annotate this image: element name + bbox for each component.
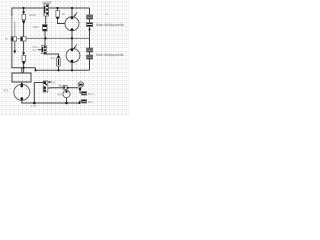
- wire capA to capB: [23, 25, 25, 53]
- switch S2 (on x23.6 mid rail): [21, 37, 26, 41]
- connector K2 (right bottom): [82, 100, 87, 104]
- component K_bot (vertical striped, x43-47): [43, 81, 50, 92]
- svg-text:Main lähtöpuolelta: Main lähtöpuolelta: [96, 53, 124, 57]
- wire y88 comp row: [47, 87, 63, 89]
- small comp D2 on wire y88: [63, 86, 67, 90]
- wire circleB drop: [66, 88, 68, 91]
- wire R1 to lamp1: [58, 21, 66, 24]
- wire lamp1 top feed: [71, 8, 73, 17]
- wire circle3 bottom to y103: [22, 100, 80, 104]
- wire bottom rail y70.3: [36, 69, 90, 71]
- wire capB to rail: [23, 65, 25, 73]
- svg-text:1,5V: 1,5V: [31, 104, 37, 108]
- switch S1 (in left border on mid rail): [11, 37, 16, 41]
- lamp L2 arrow: [74, 45, 77, 49]
- mosfet Q2: [42, 46, 47, 54]
- wire right chain between C3 C4: [89, 52, 91, 55]
- resistor R2 (source resistor): [57, 56, 61, 66]
- wire y82.5: [34, 82, 43, 84]
- wire top rail left (gate side): [12, 7, 44, 9]
- wire lamp1 to lamp2: [71, 31, 73, 50]
- wire circleA to K1: [80, 87, 82, 93]
- capacitor C2 (right chain): [87, 23, 93, 27]
- capacitor C5 (on x45.5 between Q1 and rail): [43, 25, 47, 32]
- svg-text:4n7: 4n7: [33, 48, 38, 52]
- input probe arrow (x14.7): [13, 51, 16, 54]
- wire left border vertical (lower): [11, 41, 13, 68]
- wire right chain between C1 C2: [89, 19, 91, 23]
- wire bottom-left rail y67.5: [11, 67, 35, 69]
- svg-text:9V1: 9V1: [4, 89, 9, 93]
- svg-text:14m +: 14m +: [88, 92, 96, 96]
- wire resistor R2 to bottom rail: [58, 66, 60, 70]
- connector K1 (right bottom): [82, 92, 87, 96]
- wire K2 stub: [80, 101, 82, 103]
- wire x34 vertical: [33, 83, 35, 104]
- lamp L2 circle: [66, 45, 80, 63]
- capacitor C4 (right chain): [87, 55, 93, 59]
- wire gray mid rail: [17, 38, 21, 40]
- svg-text:9V1: 9V1: [58, 93, 63, 97]
- wire top rail right: [49, 7, 90, 9]
- wire circle3 top lead: [21, 82, 23, 85]
- mini lamp B: [63, 90, 70, 97]
- capacitor C3 (right chain): [87, 48, 93, 52]
- mini lamp A: [78, 82, 83, 90]
- wire resistor R1 drop: [57, 8, 59, 11]
- stray mark: [106, 14, 107, 15]
- svg-text:14m -: 14m -: [88, 100, 95, 104]
- grid dots: [0, 0, 130, 116]
- svg-text:1n: 1n: [5, 37, 9, 41]
- svg-text:10uF: 10uF: [29, 13, 36, 17]
- lamp L1 arrow: [74, 12, 77, 16]
- wire jog at x35.5: [35, 68, 37, 71]
- wire mosfet1 drain down chain: [45, 16, 47, 25]
- wire right chain C4 to bottom rail: [89, 59, 91, 70]
- svg-text:9W: 9W: [58, 83, 62, 87]
- svg-text:UG3T: UG3T: [43, 1, 52, 5]
- svg-text:Main lähtöpuolelta: Main lähtöpuolelta: [96, 23, 124, 27]
- svg-text:5W: 5W: [51, 81, 56, 85]
- wire right chain vertical top: [89, 8, 91, 15]
- svg-text:4n7: 4n7: [51, 56, 56, 60]
- wire battery box stub: [21, 68, 23, 73]
- wire mosfet2 gate stub: [38, 49, 42, 51]
- mosfet Q1: [44, 4, 49, 16]
- wire left border vertical (upper): [11, 8, 13, 17]
- capacitor C_A (electrolytic, on x23.6): [22, 12, 26, 26]
- wire capA drop from top rail: [23, 8, 25, 12]
- wire right chain C2 to rail: [89, 27, 91, 49]
- wire left border vertical (middle, faint): [11, 16, 13, 37]
- lamp L1 circle: [65, 12, 79, 31]
- capacitor C_B (electrolytic, on x23.6): [22, 53, 26, 66]
- battery / lamp G1 circle (big, bottom-left): [14, 84, 30, 100]
- wire cap C5 to mosfet2: [44, 31, 46, 46]
- capacitor C1 (right chain): [87, 15, 93, 19]
- svg-text:Pw1: Pw1: [33, 25, 39, 29]
- wire input stub x14.7 lower: [14, 41, 16, 51]
- battery box B1: [12, 73, 31, 82]
- resistor R1: [56, 11, 59, 21]
- junction dots: [21, 7, 91, 104]
- wire mosfet2 source right: [44, 53, 58, 58]
- wire input stub x14.7 upper (faint): [14, 22, 16, 37]
- wire lamp2 to bottom rail: [71, 62, 73, 70]
